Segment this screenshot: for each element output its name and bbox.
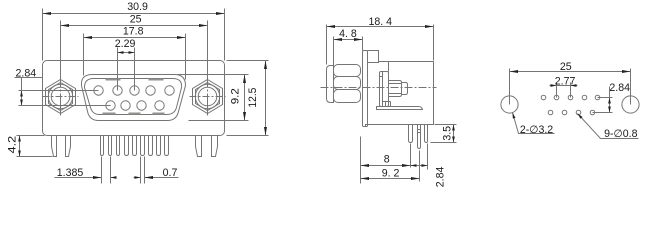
dim 2.84 right extension top (598, 97, 613, 99)
dim 25 line right view (510, 71, 631, 73)
insert bottom tab 3 (153, 113, 165, 115)
dim 0.7 extension right (144, 157, 146, 184)
svg-text:2.29: 2.29 (115, 38, 136, 50)
pad hole 4 top row (582, 95, 587, 100)
dim 9.2 extension bottom (189, 120, 249, 122)
socket hole 7 bottom row (121, 101, 130, 110)
dim 2.84 right extension bottom (593, 112, 613, 114)
flange plate side (363, 51, 368, 127)
svg-text:9.2: 9.2 (230, 88, 242, 104)
dim 3.5 line (453, 125, 455, 143)
right jackscrew vertical centerline (also 25 ext) (207, 21, 209, 116)
svg-text:2.84: 2.84 (15, 67, 36, 79)
dim 18.4 line (327, 26, 434, 28)
dim 2.77 extension right (570, 83, 572, 98)
dim 3.5 extension bottom (431, 142, 457, 144)
pin tail 7 (149, 136, 153, 156)
svg-text:17.8: 17.8 (123, 26, 144, 38)
leader 9-D0.8 (578, 114, 639, 139)
svg-text:9. 2: 9. 2 (382, 168, 400, 180)
socket hole 6 bottom row (106, 101, 115, 110)
svg-text:8: 8 (384, 154, 390, 166)
dim 30.9 extension left (42, 9, 44, 61)
dim 4.8 line (334, 39, 363, 41)
contact cap (402, 83, 408, 95)
dim 18.4 extension right (433, 25, 435, 61)
left jackscrew hex outer (46, 80, 76, 114)
dim 12.5 extension top (227, 60, 269, 62)
dim 30.9 extension right (224, 9, 226, 61)
dim 2.84 left arrows (21, 91, 23, 106)
svg-text:12.5: 12.5 (247, 88, 259, 108)
dim 17.8 extension left (83, 34, 85, 76)
pad hole 2 top row (554, 95, 559, 100)
svg-text:4. 8: 4. 8 (339, 28, 357, 40)
dim 0.7 extension left (140, 157, 142, 184)
middle pin 2 (center row) (418, 125, 421, 149)
dim 9.2 line (244, 75, 246, 121)
svg-text:4.2: 4.2 (6, 136, 18, 154)
pad hole 8 bottom row (576, 110, 581, 115)
svg-text:1.385: 1.385 (57, 167, 84, 179)
dim 2.77 right arrow tail (571, 85, 578, 87)
pin tail 5 (133, 136, 137, 156)
svg-text:30.9: 30.9 (127, 1, 148, 13)
dim 2.84 left shoulder (15, 77, 43, 79)
dim 9.2 extension top (178, 74, 249, 76)
dim 1.385 extension left (101, 157, 103, 184)
dim 2.84 right arrows (609, 98, 611, 113)
junction block under cylinder (383, 101, 391, 103)
flange outline (43, 61, 225, 136)
centerline middle view (321, 87, 437, 89)
shell body side (366, 62, 434, 127)
hex standoff facet band 3 (334, 90, 361, 103)
dim 1.385 right arrow tail (111, 177, 117, 179)
left jackscrew hex inner (49, 83, 73, 111)
svg-text:25: 25 (560, 61, 572, 73)
left jackscrew inner circle (51, 87, 70, 106)
dim 3.5 extension top (435, 124, 457, 126)
svg-text:0.7: 0.7 (163, 167, 178, 179)
hex standoff facet band 1 (334, 65, 361, 77)
shell inner edge line (388, 62, 390, 72)
contact cylinder inner lines (389, 83, 402, 85)
dim 2.29 line (118, 52, 135, 54)
socket hole 8 bottom row (137, 101, 146, 110)
dim 2.77 left arrow tail (550, 85, 557, 87)
right jackscrew horizontal centerline (190, 96, 226, 98)
dim 4.8 extension left (333, 37, 335, 66)
socket hole 5 top row (165, 86, 174, 95)
pin tail 1 (101, 136, 104, 156)
socket hole 9 bottom row (155, 101, 164, 110)
svg-text:25: 25 (130, 13, 142, 25)
svg-text:2.84: 2.84 (434, 166, 446, 187)
dim 2.29 extension right (134, 48, 136, 91)
left jackscrew outer circle (48, 84, 72, 108)
dim 4.8 extension right (362, 37, 364, 51)
middle pin 1 (front) (409, 125, 413, 143)
svg-text:18. 4: 18. 4 (369, 16, 393, 28)
pin tail 8 (157, 136, 161, 156)
leader 2-D3.2 (513, 113, 555, 134)
dim 2.29 extension left (117, 48, 119, 91)
dim 4.2 extension bottom (17, 156, 53, 158)
dim 25 extension right (630, 69, 632, 105)
pin tail 6 (141, 136, 145, 156)
dim 9.2 middle line (361, 178, 420, 180)
socket hole 3 top row (130, 86, 139, 95)
insert top tab 1 (106, 79, 121, 81)
bracket foot (377, 107, 423, 110)
dim 18.4 extension left (326, 25, 328, 65)
middle pin 2 tick marks (418, 129, 421, 131)
pin tail 4 (125, 136, 129, 156)
dim 12.5 extension bottom (227, 135, 269, 137)
left board lock half 1 (52, 136, 57, 157)
insert D inner (85, 79, 182, 115)
insert bottom tab 2 (129, 113, 141, 115)
socket hole 4 top row (146, 86, 155, 95)
insert bottom tab 1 (103, 113, 116, 115)
mounting hole left (501, 96, 518, 113)
flange top tab (368, 51, 379, 63)
bracket arm inner line (382, 72, 384, 107)
socket hole 2 top row (113, 86, 122, 95)
pin tail 2 (109, 136, 112, 156)
svg-text:2-∅3.2: 2-∅3.2 (520, 124, 553, 136)
dim 2.77 extension left (556, 83, 558, 98)
right board lock half 1 (196, 136, 202, 157)
bottom dims left extension (360, 137, 362, 184)
left board lock half 2 (66, 136, 71, 157)
svg-text:9-∅0.8: 9-∅0.8 (604, 128, 637, 140)
left jackscrew horizontal centerline (43, 96, 79, 98)
middle pin 3 (rear) (425, 125, 428, 143)
pad hole 9 bottom row (590, 110, 595, 115)
pin tail 9 (165, 136, 169, 156)
bracket arm block (380, 72, 389, 107)
dim 2.84 left extension bottom (19, 105, 111, 107)
dim 12.5 line (265, 61, 267, 136)
pad hole 1 top row (541, 95, 546, 100)
left jackscrew vertical centerline (also 25 ext) (60, 21, 62, 116)
contact cylinder (389, 81, 402, 97)
dim 0.7 line with arrow (145, 177, 179, 179)
jackscrew stud nub (327, 66, 334, 103)
dim 2.84 middle line (411, 165, 428, 167)
shell lip D outer (81, 75, 185, 121)
dim 1.385 extension right (110, 157, 112, 184)
right jackscrew hex inner (196, 83, 220, 111)
right board lock half 2 (212, 136, 218, 157)
dim 30.9 line (43, 13, 225, 15)
middle pin1 extension (410, 144, 412, 168)
socket hole 1 top row (94, 86, 103, 95)
svg-text:3.5: 3.5 (441, 126, 453, 141)
dim 4.2 line (19, 136, 21, 157)
pad hole 3 top row (568, 95, 573, 100)
dim 0.7 left arrow tail (134, 177, 141, 179)
dim 17.8 line (84, 37, 186, 39)
mounting hole right (622, 96, 639, 113)
middle pin3 extension (427, 144, 429, 170)
dim 2.84 left line (21, 78, 23, 106)
middle pin2 extension (419, 151, 421, 182)
right jackscrew outer circle (195, 84, 219, 108)
dim 2.84 left extension top (19, 90, 99, 92)
dim 25 line (61, 25, 208, 27)
dim 2.77 line middle (557, 85, 571, 87)
right jackscrew hex outer (193, 80, 223, 114)
hex standoff facet band 2 (334, 77, 361, 90)
dim 2.84 right line (609, 87, 611, 113)
pad hole 5 top row (595, 95, 600, 100)
right jackscrew inner circle (198, 87, 217, 106)
pad hole 6 bottom row (548, 110, 553, 115)
dim 1.385 line with arrow (55, 177, 102, 179)
dim 4.2 extension top (17, 135, 45, 137)
pad hole 7 bottom row (562, 110, 567, 115)
pin tail 3 (117, 136, 120, 156)
svg-text:2.84: 2.84 (609, 82, 630, 94)
insert top tab 2 (149, 79, 164, 81)
svg-text:2.77: 2.77 (555, 76, 576, 88)
dim 25 extension left (509, 69, 511, 105)
bracket arm tick (380, 76, 383, 78)
dim 17.8 extension right (185, 34, 187, 80)
dim 8 line (361, 165, 411, 167)
